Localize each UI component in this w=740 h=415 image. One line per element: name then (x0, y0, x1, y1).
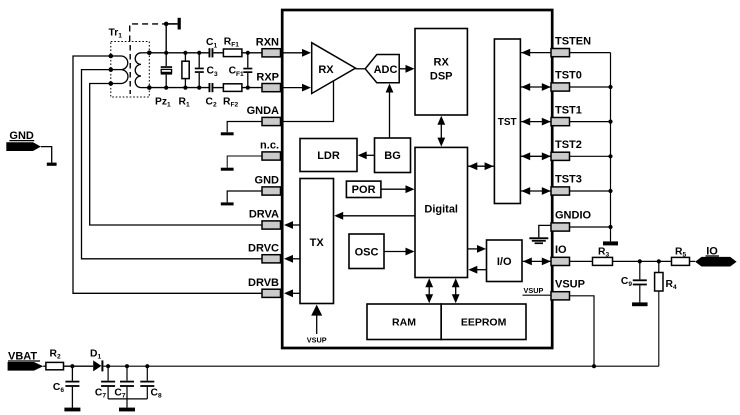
capacitor C9 (633, 261, 647, 302)
arrow TX to DRVB pad (284, 289, 300, 297)
double arrow TST - TST1 pad (520, 118, 551, 126)
capacitor C2 (209, 83, 214, 92)
svg-text:TST2: TST2 (555, 139, 582, 151)
wire RXP pin to RX amp (284, 84, 312, 92)
junction dot C9 node (638, 259, 642, 263)
wire TST1 to test bus (570, 121, 611, 123)
double arrow I/O - IO pad (522, 258, 551, 266)
ground bar C6 (64, 408, 80, 412)
label C6 (53, 382, 64, 394)
capacitor C6 (65, 366, 79, 407)
arrow POR to Digital (381, 185, 415, 193)
op-amp RX (receive amplifier) (312, 43, 356, 94)
svg-text:DRVA: DRVA (249, 209, 279, 221)
pin label GND (255, 175, 280, 187)
ground bar (GND flag) (47, 163, 57, 166)
arrow Digital to TX (334, 212, 415, 220)
pin pad DRVC (262, 255, 281, 263)
svg-text:DSP: DSP (430, 70, 453, 82)
transformer Tr1 primary winding (111, 56, 128, 84)
wire GNDIO to test bus (570, 226, 611, 228)
double arrow TST - TST0 pad (520, 83, 551, 91)
wire capacitor ground rail (108, 399, 147, 408)
electrode bar (178, 18, 181, 30)
label R2 (50, 349, 61, 361)
wire IO pad to R3 (570, 260, 593, 262)
capacitor CF1 (243, 53, 252, 88)
junctions on RXN rail (164, 51, 250, 55)
ground bar GNDA (221, 132, 234, 135)
pin pad TST0 (551, 83, 570, 91)
arrow TX to DRVA pad (284, 221, 300, 229)
pin label RXN (256, 37, 279, 49)
junction dot C6 node (70, 364, 74, 368)
IC boundary box (282, 10, 552, 348)
label RF2 (223, 97, 238, 109)
capacitor C7a (101, 366, 115, 399)
wire RXP rail (149, 87, 262, 89)
pin pad n.c. (262, 152, 281, 160)
arrow VSUP into TX (311, 305, 322, 334)
wire GND flag to ground (41, 147, 52, 163)
svg-text:BG: BG (384, 150, 401, 162)
pin label TST3 (555, 174, 582, 186)
arrow Digital to I/O (468, 245, 487, 253)
svg-text:EEPROM: EEPROM (461, 317, 507, 329)
block ADC (365, 55, 399, 83)
double arrow Digital - RAM (425, 278, 433, 303)
capacitor C1 (209, 48, 214, 57)
ground bar C9 (632, 302, 648, 306)
svg-text:TSTEN: TSTEN (555, 35, 591, 47)
piezo resonator Pz1 (161, 53, 172, 88)
double arrow Digital - TST (468, 162, 495, 170)
wire DRVA net (bottom tap) (90, 84, 262, 226)
label R5 (675, 246, 686, 258)
label D1 (90, 349, 101, 361)
block OSC (349, 234, 384, 269)
wire GNDA pin to RX amp (284, 81, 334, 122)
net flag VBAT (8, 350, 44, 370)
block LDR (300, 139, 357, 172)
block I/O (487, 240, 523, 282)
resistor R1 (182, 53, 189, 88)
pin pad VSUP (551, 292, 570, 300)
svg-text:GNDA: GNDA (247, 105, 279, 117)
transformer primary tap junctions (109, 54, 114, 86)
junction dot R4 node (657, 259, 661, 263)
arrow I/O to Digital (468, 266, 486, 274)
wire TST0 to test bus (570, 86, 611, 88)
pin label TST2 (555, 139, 582, 151)
svg-text:VSUP: VSUP (555, 279, 585, 291)
pin pad RXN (262, 49, 281, 57)
svg-text:IO: IO (555, 244, 567, 256)
label C7b (114, 387, 125, 399)
svg-text:TST3: TST3 (555, 174, 582, 186)
wire n.c. to ground (227, 156, 262, 168)
label Pz1 (155, 97, 171, 109)
pin pad DRVA (262, 221, 281, 229)
svg-text:DRVB: DRVB (248, 277, 279, 289)
pin label DRVA (249, 209, 279, 221)
ground symbol GNDIO internal (529, 237, 548, 244)
block EEPROM (441, 304, 526, 340)
wire VSUP internal stub (523, 294, 552, 296)
block TX (300, 179, 334, 304)
pin label GNDA (247, 105, 279, 117)
pin label IO (555, 244, 567, 256)
block TST (494, 39, 520, 204)
svg-text:TST1: TST1 (555, 104, 582, 116)
svg-text:RXP: RXP (256, 71, 279, 83)
arrow OSC to Digital (384, 248, 415, 256)
resistor R2 (43, 362, 63, 369)
transformer secondary tap junctions (147, 51, 152, 90)
double arrow RX DSP - Digital (437, 116, 445, 147)
arrow TSTEN pad to TST (521, 49, 550, 57)
pin label TST1 (555, 104, 582, 116)
pin pad TST2 (551, 152, 570, 160)
label VSUP under TX (307, 336, 327, 345)
pin pad DRVB (262, 289, 281, 297)
transformer Tr1 shield box (dotted) (111, 42, 150, 98)
ground bar test bus (603, 241, 618, 245)
arrow BG to ADC (386, 84, 394, 139)
resistor R5 (672, 257, 690, 265)
label VSUP internal (524, 286, 544, 295)
label C2 (206, 97, 217, 109)
block RX DSP (415, 29, 467, 116)
junction dot electrode node (164, 22, 169, 27)
svg-text:RAM: RAM (392, 317, 416, 329)
pin pad GNDA (262, 117, 281, 125)
block BG (375, 138, 411, 173)
label C3 (207, 66, 218, 78)
pin pad TST1 (551, 118, 570, 126)
svg-text:TX: TX (310, 237, 325, 249)
svg-text:OSC: OSC (355, 246, 379, 258)
svg-text:Digital: Digital (424, 204, 458, 216)
svg-text:ADC: ADC (374, 64, 398, 76)
block POR (346, 181, 381, 197)
wire VSUP pad to rail (570, 296, 595, 366)
capacitor C3 (195, 53, 204, 88)
label C1 (206, 37, 217, 49)
pin label RXP (256, 71, 279, 83)
ground bar GND pin (221, 202, 234, 205)
wire DRVC net (mid tap) (82, 70, 263, 259)
test bus vertical (610, 53, 612, 242)
wire VBAT rail (103, 365, 658, 367)
capacitor C8 (140, 366, 154, 399)
svg-text:TST0: TST0 (555, 70, 582, 82)
svg-text:RX: RX (434, 56, 450, 68)
svg-text:GND: GND (255, 175, 280, 187)
pin pad TST3 (551, 187, 570, 195)
svg-text:TST: TST (498, 117, 517, 128)
pin pad RXP (262, 84, 281, 92)
label RF1 (224, 36, 239, 48)
pin label n.c. (260, 140, 279, 152)
resistor RF1 (223, 49, 242, 57)
wire R2 to D1 (64, 365, 94, 367)
resistor R4 (655, 261, 663, 366)
wire RX to ADC (356, 68, 366, 70)
svg-text:DRVC: DRVC (248, 243, 279, 255)
block Digital (415, 147, 468, 277)
wire R5 to IO flag (690, 260, 696, 262)
junctions test bus (608, 85, 612, 229)
pin label DRVC (248, 243, 279, 255)
transformer Tr1 secondary winding (135, 53, 149, 88)
pin label TST0 (555, 70, 582, 82)
pin pad GND (262, 187, 281, 195)
dashed wire core to electrode (130, 24, 167, 42)
diode D1 (93, 360, 103, 371)
double arrow TST - TST2 pad (520, 152, 551, 160)
label C9 (621, 276, 632, 288)
pin pad GNDIO (551, 223, 570, 231)
label CF1 (229, 66, 244, 78)
junction dots VBAT rail (106, 364, 596, 368)
capacitor C7b (120, 366, 134, 399)
pin label DRVB (248, 277, 279, 289)
svg-text:GNDIO: GNDIO (555, 210, 592, 222)
transformer Tr1 label (109, 28, 123, 40)
wire RXN pin to RX amp (284, 49, 312, 57)
wire GNDA to ground (227, 122, 262, 133)
pin label GNDIO (555, 210, 592, 222)
label C7a (95, 387, 106, 399)
wire TST2 to test bus (570, 155, 611, 157)
svg-text:I/O: I/O (497, 256, 512, 268)
ground bar n.c. (221, 168, 234, 171)
wire GNDIO internal ground (539, 225, 551, 237)
label C8 (151, 387, 162, 399)
net flag IO (695, 245, 736, 266)
block RAM (367, 304, 441, 340)
net flag GND (6, 130, 41, 151)
label R3 (598, 246, 609, 258)
label R4 (666, 279, 677, 291)
wire RXN rail (149, 52, 262, 54)
wire TST3 to test bus (570, 190, 611, 192)
ground bar C7 C8 (119, 408, 135, 412)
pin pad IO (551, 257, 570, 265)
resistor RF2 (223, 84, 242, 92)
svg-text:VSUP: VSUP (524, 286, 544, 295)
svg-text:RXN: RXN (256, 37, 279, 49)
arrow BG to LDR (358, 151, 375, 159)
pin label TSTEN (555, 35, 591, 47)
wire R3 to R5 (613, 260, 672, 262)
arrow TX to DRVC pad (284, 255, 300, 263)
wire electrode stub (166, 23, 177, 25)
svg-text:n.c.: n.c. (260, 140, 279, 152)
svg-text:RX: RX (318, 64, 334, 76)
wire DRVB net (top tap) (73, 56, 262, 293)
arrow ADC to RX DSP (399, 65, 414, 73)
double arrow Digital - EEPROM (452, 278, 460, 303)
wire GND pin to ground (227, 191, 262, 202)
label R1 (179, 97, 190, 109)
svg-text:LDR: LDR (317, 150, 340, 162)
svg-text:VSUP: VSUP (307, 336, 327, 345)
pin label VSUP (555, 279, 585, 291)
resistor R3 (593, 257, 613, 265)
wire TSTEN to test bus (570, 52, 611, 54)
wire electrode to RXN rail (165, 24, 167, 53)
junctions on RXP rail (164, 86, 250, 90)
svg-text:POR: POR (352, 184, 376, 196)
transformer Tr1 core (dashed) (129, 45, 131, 94)
pin pad TSTEN (551, 49, 570, 57)
double arrow TST - TST3 pad (520, 187, 551, 195)
